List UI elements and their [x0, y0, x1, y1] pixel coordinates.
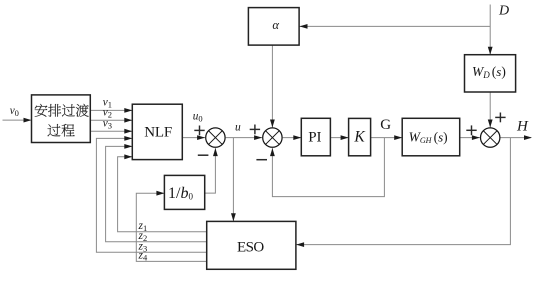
svg-text:K: K — [353, 129, 365, 146]
svg-text:PI: PI — [308, 129, 321, 145]
svg-text:NLF: NLF — [144, 125, 172, 141]
svg-text:G: G — [380, 117, 391, 133]
svg-text:ESO: ESO — [237, 239, 264, 255]
svg-text:D: D — [498, 4, 509, 19]
svg-text:u: u — [235, 122, 241, 134]
svg-text:H: H — [516, 118, 529, 134]
svg-text:α: α — [272, 18, 279, 32]
